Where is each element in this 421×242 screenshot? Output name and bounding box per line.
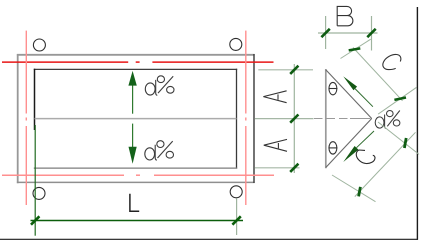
section centerline dashes [314, 118, 350, 120]
dimension A extension middle [255, 118, 314, 120]
section triangle left edge [325, 69, 327, 168]
label a% lower [145, 141, 174, 160]
dimension B line [318, 32, 378, 34]
inner slab rectangle [34, 69, 237, 169]
dimension L tick right [232, 216, 240, 224]
label A lower (rotated) [264, 139, 287, 151]
dimension B tick right [367, 29, 375, 37]
label a% right [375, 111, 400, 129]
red centerline vertical right [245, 31, 247, 205]
red centerline horizontal top [2, 61, 274, 63]
dimension B extension right [371, 16, 373, 51]
dimension C extension lower oblique [378, 87, 417, 114]
dimension A tick 3 [290, 164, 298, 172]
dimension A tick 1 [290, 66, 298, 74]
dimension L line [31, 220, 244, 222]
red centerline vertical left [25, 31, 27, 205]
dimension A extension top [258, 69, 313, 71]
bottom-right dimension line [355, 132, 416, 196]
dimension L tick left [31, 216, 39, 224]
label a% upper [145, 76, 174, 96]
label theta upper [329, 82, 338, 94]
corner circle top-right [230, 38, 242, 50]
right page border [416, 7, 418, 240]
dimension C extension upper oblique [341, 39, 371, 58]
label B [337, 6, 353, 25]
section slope arrow lower [343, 131, 374, 162]
bottom-right tick lower [359, 187, 361, 197]
section triangle lower hypotenuse [326, 119, 372, 168]
bottom-right tick upper [404, 138, 406, 148]
label A upper (rotated) [263, 91, 286, 103]
dimension A extension bottom [255, 167, 300, 169]
outer slab rectangle [17, 54, 255, 183]
slope arrow up (plan) [128, 71, 136, 114]
section triangle upper hypotenuse [326, 70, 372, 119]
dimension C line [353, 48, 403, 101]
dimension C tick upper [349, 48, 361, 50]
curl hook on lower arrow [356, 150, 375, 164]
middle crown line of slab [35, 118, 237, 120]
red centerline horizontal bottom [2, 174, 274, 176]
slope arrow down (plan) [129, 124, 137, 164]
dimension B extension left [325, 16, 327, 49]
corner circle bottom-right [230, 186, 242, 198]
corner circle bottom-left [33, 187, 45, 199]
label C [383, 54, 401, 69]
dimension L extension line right [236, 198, 238, 235]
label theta lower [329, 142, 338, 154]
label L [130, 194, 139, 212]
bottom page border [0, 238, 418, 240]
dimension L extension line left [34, 125, 36, 236]
dimension A tick 2 [290, 115, 298, 123]
section slope arrow upper [343, 76, 373, 106]
bottom-right dimension extension lower [332, 175, 376, 202]
dimension A line [293, 64, 295, 173]
bottom-right dimension extension upper [378, 122, 419, 154]
dimension B tick left [321, 29, 329, 37]
dimension C tick lower [394, 98, 406, 100]
corner circle top-left [33, 39, 45, 51]
